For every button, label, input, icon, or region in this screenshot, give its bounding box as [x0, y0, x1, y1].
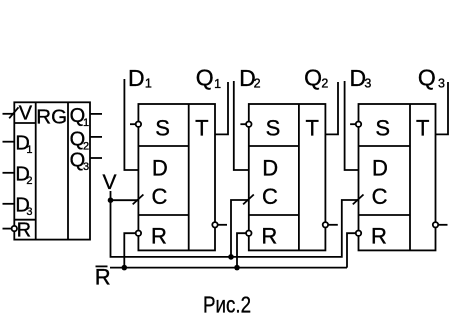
- wire U1 T output to Q1: [215, 82, 228, 134]
- svg-text:R: R: [371, 223, 387, 248]
- register D1 input stub: [3, 141, 15, 143]
- wire R-bar to U1 R input: [124, 233, 135, 267]
- svg-text:3: 3: [26, 206, 32, 218]
- flip-flop U1 box: [138, 104, 215, 250]
- wire U2 T output to Q2: [325, 82, 338, 134]
- flip-flop U2 box: [249, 104, 326, 250]
- svg-text:S: S: [155, 115, 170, 140]
- svg-text:1: 1: [83, 117, 89, 129]
- svg-text:V: V: [102, 171, 116, 194]
- label R-bar (net): [95, 265, 111, 290]
- wire D3 to U3 D input: [345, 81, 359, 170]
- register R input stub with inversion circle: [3, 226, 18, 231]
- svg-text:3: 3: [83, 161, 89, 173]
- junction R-bar to U1 R: [122, 265, 128, 271]
- U2 inverted output circle and stub: [323, 222, 338, 227]
- register D2 input stub: [3, 172, 15, 174]
- svg-text:R: R: [151, 223, 167, 248]
- svg-text:C: C: [152, 184, 168, 209]
- U3 inverted output circle and stub: [433, 222, 448, 227]
- svg-text:2: 2: [254, 77, 261, 91]
- svg-text:T: T: [416, 116, 429, 141]
- wire R-bar to U2 R input: [237, 233, 246, 267]
- svg-text:V: V: [19, 102, 33, 124]
- register RG box: [14, 102, 90, 239]
- svg-text:R: R: [261, 223, 277, 248]
- wire R-bar line: [110, 267, 347, 269]
- U2 C input dynamic slash: [243, 195, 254, 205]
- svg-text:Q: Q: [196, 65, 214, 91]
- svg-text:D: D: [128, 65, 145, 91]
- U3 S input inversion circle and stub: [350, 122, 361, 127]
- svg-text:3: 3: [438, 77, 445, 91]
- svg-text:2: 2: [26, 175, 32, 187]
- U1 R input inversion circle: [136, 231, 141, 236]
- U1 C input dynamic slash: [133, 195, 144, 205]
- register Q1 output stub: [90, 113, 102, 115]
- wire V vertical and to U1 C input: [111, 191, 359, 257]
- wire V branch to U2 C input: [231, 200, 249, 257]
- junction V node: [108, 197, 114, 203]
- U2 S input inversion circle and stub: [240, 122, 251, 127]
- svg-text:R: R: [95, 265, 111, 290]
- svg-text:Q: Q: [304, 65, 322, 91]
- U3 R input inversion circle: [356, 231, 361, 236]
- register V input stub: [3, 107, 19, 118]
- svg-text:C: C: [262, 184, 278, 209]
- svg-text:D: D: [152, 156, 168, 181]
- flip-flop U3 box: [359, 104, 436, 250]
- svg-text:Q: Q: [418, 65, 436, 91]
- svg-text:R: R: [17, 219, 31, 241]
- U1 inverted output circle and stub: [212, 222, 227, 227]
- junction R-bar to U2 R: [234, 265, 240, 271]
- wire R-bar to U3 R input: [347, 233, 356, 267]
- wire U3 T output to Q3: [436, 82, 449, 134]
- register Q3 output stub: [90, 157, 102, 159]
- svg-text:1: 1: [214, 77, 221, 91]
- junction V to U2 C: [228, 254, 234, 260]
- wire D2 to U2 D input: [234, 81, 249, 170]
- svg-text:T: T: [305, 116, 318, 141]
- svg-text:2: 2: [321, 77, 328, 91]
- U3 C input dynamic slash: [353, 195, 364, 205]
- U1 S input inversion circle and stub: [130, 122, 141, 127]
- register D3 input stub: [3, 203, 15, 205]
- svg-text:S: S: [375, 115, 390, 140]
- wire V to U1 C input: [111, 199, 139, 201]
- wire D1 to U1 D input: [124, 79, 138, 170]
- svg-text:T: T: [195, 116, 208, 141]
- svg-text:C: C: [372, 184, 388, 209]
- U2 R input inversion circle: [246, 231, 251, 236]
- svg-text:S: S: [266, 115, 281, 140]
- svg-text:D: D: [262, 156, 278, 181]
- svg-text:D: D: [372, 156, 388, 181]
- svg-text:1: 1: [145, 76, 152, 90]
- svg-text:1: 1: [26, 144, 32, 156]
- svg-text:3: 3: [364, 77, 371, 91]
- svg-text:RG: RG: [36, 106, 67, 129]
- svg-text:Рис.2: Рис.2: [203, 291, 251, 314]
- register Q2 output stub: [90, 136, 102, 138]
